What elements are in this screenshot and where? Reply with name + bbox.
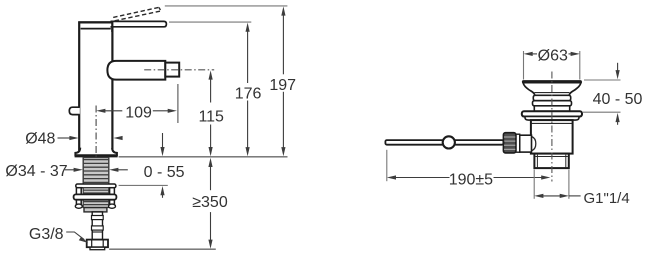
lever bar (closed position) — [78, 21, 166, 32]
svg-text:109: 109 — [125, 105, 152, 122]
boss collar — [516, 134, 520, 152]
drain centerline — [551, 72, 553, 182]
svg-text:Ø63: Ø63 — [538, 48, 568, 65]
spout — [107, 61, 165, 80]
spout centerline — [144, 69, 214, 71]
drain plate — [522, 111, 582, 116]
top washer bar — [76, 184, 116, 188]
body centerline — [95, 106, 97, 157]
svg-text:197: 197 — [269, 77, 296, 94]
pop-up rod — [385, 140, 503, 145]
dimension 115 — [198, 70, 224, 156]
lever raised position (dashed) — [113, 7, 161, 20]
svg-text:115: 115 — [198, 108, 224, 125]
mounting deck line — [119, 156, 288, 158]
label G3/8 with leader — [29, 226, 88, 243]
drain body — [531, 120, 573, 154]
drain tailpiece — [534, 154, 568, 169]
faucet body — [79, 22, 112, 149]
bottom reference line (>=350) — [109, 248, 216, 250]
base flange — [75, 148, 118, 157]
dimension 176 — [235, 23, 262, 157]
G3/8 hex nut — [87, 240, 108, 250]
thread between bracket legs — [83, 188, 109, 208]
bracket left leg — [75, 188, 82, 209]
left tab on body — [69, 107, 80, 114]
extension lines 40-50 — [583, 80, 621, 112]
supply rod — [92, 212, 104, 240]
drain lip — [525, 117, 579, 121]
svg-text:Ø34 - 37: Ø34 - 37 — [5, 163, 67, 180]
dimension 190+-5 — [387, 171, 551, 188]
knurled nut — [503, 133, 516, 153]
rod boss — [520, 135, 532, 152]
dimension >=350 — [192, 158, 228, 249]
dimension D63 — [524, 48, 580, 65]
extension line lever top (176) — [169, 21, 251, 23]
extension line 0-55 lower — [119, 184, 168, 186]
svg-text:G1"1/4: G1"1/4 — [584, 190, 630, 207]
extension line top (197) — [165, 5, 288, 7]
svg-text:≥350: ≥350 — [192, 194, 228, 211]
boss bulge into body — [532, 137, 536, 151]
threaded shank — [83, 158, 109, 185]
dimension 197 — [269, 6, 296, 156]
svg-text:40 - 50: 40 - 50 — [593, 91, 643, 108]
extension lines G1"1/4 — [534, 170, 569, 199]
extension line rod end (190) — [386, 150, 388, 181]
svg-text:0 - 55: 0 - 55 — [144, 164, 185, 181]
dimension 0 - 55 — [144, 133, 185, 198]
spout aerator tip — [165, 63, 179, 77]
drain trumpet flange — [522, 80, 582, 95]
rod ball — [443, 136, 455, 148]
lower gray collar — [84, 208, 107, 212]
dimension 109 — [96, 105, 177, 122]
svg-text:190±5: 190±5 — [449, 171, 493, 188]
label D48 — [25, 131, 122, 148]
dimension G1"1/4 with leader — [534, 190, 629, 207]
drain neck — [534, 106, 569, 111]
drain ring 2 — [533, 101, 572, 106]
extension line spout tip (109) — [177, 84, 179, 123]
label D34-37 — [5, 163, 127, 180]
drain ring 1 — [533, 95, 570, 100]
extension lines D63 — [524, 51, 580, 80]
dimension 40-50 — [593, 63, 643, 125]
handle cap inner plate line — [81, 28, 111, 30]
svg-text:G3/8: G3/8 — [29, 226, 64, 243]
mounting nut bar — [74, 194, 117, 199]
bracket right leg — [109, 188, 116, 209]
svg-text:Ø48: Ø48 — [25, 131, 55, 148]
svg-text:176: 176 — [235, 86, 262, 103]
